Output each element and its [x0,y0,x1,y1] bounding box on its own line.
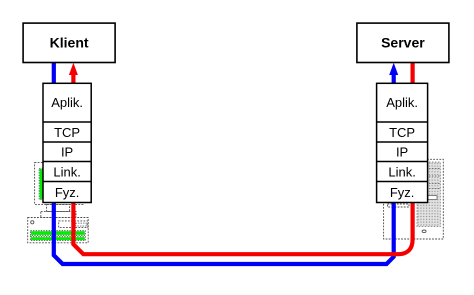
hub (bottom left) [28,204,88,242]
svg-text:TCP: TCP [389,125,415,140]
svg-text:Aplik.: Aplik. [386,95,418,110]
Server box [357,23,449,62]
hub port row 1 [31,231,85,235]
tower drive slot [428,196,437,200]
blue arrowhead into Server [389,63,398,75]
server tower behind right stack [384,159,444,239]
svg-text:TCP: TCP [54,125,80,140]
red arrowhead into Klient [69,63,78,75]
hub display rect [59,221,88,228]
red response path Server to Klient [73,63,412,255]
svg-text:Fyz.: Fyz. [55,185,80,200]
hub riser level 1 [47,204,70,211]
tower power button [422,230,426,233]
tower front texture panel [417,162,440,227]
svg-text:Klient: Klient [50,35,89,51]
hub riser level 2 [41,211,76,217]
svg-text:Aplik.: Aplik. [51,95,83,110]
hub port row 2 [31,237,85,240]
svg-text:Link.: Link. [388,164,415,179]
svg-text:Fyz.: Fyz. [390,185,415,200]
hub power light [31,221,34,224]
tower inner base sliver [388,204,410,207]
hub body [28,218,88,243]
right protocol stack [377,83,428,202]
svg-text:IP: IP [396,144,408,159]
NIC card behind left stack [35,163,83,205]
Klient box [23,23,115,62]
blue request path Klient to Server [54,63,394,265]
svg-text:Link.: Link. [53,164,80,179]
svg-text:Server: Server [381,35,425,51]
hub display inner rect [76,223,88,226]
tower bay division lines [417,168,440,170]
left protocol stack [43,83,91,202]
svg-text:IP: IP [61,144,73,159]
